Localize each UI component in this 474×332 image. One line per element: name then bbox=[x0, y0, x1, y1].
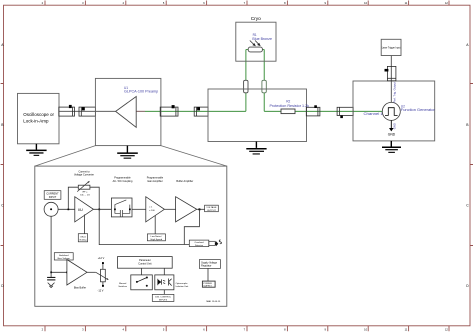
ground (function generator) bbox=[382, 141, 401, 153]
frame ticks bottom bbox=[45, 326, 449, 332]
svg-text:Nulling: Nulling bbox=[80, 239, 87, 241]
svg-text:MAK 15.06.15: MAK 15.06.15 bbox=[206, 300, 221, 303]
svg-text:I/U: I/U bbox=[78, 207, 83, 212]
svg-text:Optocoupler: Optocoupler bbox=[176, 282, 188, 285]
wire amp output (dark segment) bbox=[136, 110, 145, 112]
svg-text:7: 7 bbox=[244, 1, 246, 5]
wire bias from input bbox=[51, 216, 67, 272]
magnifier line left bbox=[35, 146, 96, 167]
svg-text:R1: R1 bbox=[253, 33, 257, 37]
frame ticks top bbox=[45, 1, 449, 6]
svg-text:x 100: x 100 bbox=[149, 210, 155, 212]
connector J4 (trigger) bbox=[387, 66, 396, 80]
buzzer connector bbox=[209, 241, 216, 245]
svg-text:-12 V: -12 V bbox=[98, 289, 104, 292]
wire R1 stubs bbox=[246, 50, 264, 53]
wire coupling to PGA bbox=[132, 208, 146, 210]
svg-text:9: 9 bbox=[324, 1, 326, 5]
cryo box bbox=[236, 22, 276, 61]
bias buffer triangle bbox=[67, 260, 87, 286]
PGA triangle bbox=[146, 197, 165, 222]
svg-text:Regulator: Regulator bbox=[201, 265, 212, 268]
svg-text:7: 7 bbox=[244, 327, 246, 331]
wire I/U to coupling bbox=[93, 208, 111, 210]
svg-text:11: 11 bbox=[405, 1, 408, 5]
switch in coupling bbox=[115, 200, 130, 209]
light arrows at R1 bbox=[250, 41, 260, 46]
wire green right cryo drop bbox=[263, 52, 265, 111]
svg-text:Channel 1: Channel 1 bbox=[364, 112, 384, 116]
svg-text:Oscilloscope or: Oscilloscope or bbox=[23, 112, 54, 117]
oscilloscope box bbox=[18, 93, 60, 143]
svg-text:INPUT: INPUT bbox=[49, 196, 57, 199]
svg-text:Offset: Offset bbox=[80, 235, 86, 238]
svg-text:INPUTS: INPUTS bbox=[159, 300, 168, 302]
ground (preamp) bbox=[117, 146, 138, 159]
dig control inputs box bbox=[152, 294, 174, 301]
svg-text:Cryo: Cryo bbox=[251, 16, 261, 22]
power supply box bbox=[202, 281, 215, 287]
offset nulling box bbox=[78, 234, 87, 242]
svg-text:B: B bbox=[466, 123, 469, 127]
svg-text:Lock-in-Amp: Lock-in-Amp bbox=[23, 118, 49, 123]
switch box bbox=[131, 275, 153, 290]
svg-text:4: 4 bbox=[122, 327, 124, 331]
svg-text:Detector: Detector bbox=[195, 244, 204, 247]
feedback loop wires bbox=[68, 187, 99, 209]
svg-text:DIG. CONTROL: DIG. CONTROL bbox=[155, 297, 172, 299]
svg-text:High Speed: High Speed bbox=[151, 239, 163, 241]
capacitor in coupling bbox=[115, 209, 130, 216]
svg-text:SUPPLY: SUPPLY bbox=[203, 285, 212, 287]
connector J1a bbox=[59, 107, 75, 116]
wire bias buffer to pot bbox=[87, 271, 96, 273]
wire oscilloscope to preamp bbox=[59, 110, 95, 112]
supply voltage regulator box bbox=[199, 260, 220, 269]
optocoupler internals bbox=[158, 279, 172, 286]
svg-text:OUTPUT: OUTPUT bbox=[207, 210, 217, 212]
wire regulator to power supply bbox=[207, 268, 209, 281]
svg-text:6: 6 bbox=[203, 327, 205, 331]
feedthrough right bbox=[262, 80, 266, 93]
R2 shield box bbox=[208, 89, 307, 142]
svg-text:Bias Buffer: Bias Buffer bbox=[74, 287, 86, 290]
wire PGA to buffer bbox=[164, 208, 175, 210]
laser trigger box bbox=[381, 39, 401, 55]
wire green left cryo drop bbox=[245, 52, 247, 111]
node dot bbox=[68, 209, 70, 211]
connector J2b bbox=[194, 107, 208, 116]
buffer triangle bbox=[176, 197, 197, 222]
svg-text:12: 12 bbox=[445, 1, 448, 5]
connector J3a bbox=[306, 107, 320, 116]
svg-text:Function Generator: Function Generator bbox=[401, 108, 436, 112]
node dot output bbox=[199, 208, 201, 210]
svg-text:5: 5 bbox=[163, 1, 165, 5]
svg-text:Gain Amplifier: Gain Amplifier bbox=[147, 180, 163, 183]
svg-text:5: 5 bbox=[163, 327, 165, 331]
svg-text:Buffer Amplifier: Buffer Amplifier bbox=[176, 180, 193, 183]
wire offset nulling bbox=[83, 215, 85, 234]
chevron ground bbox=[48, 283, 55, 288]
op-amp triangle U1 bbox=[116, 97, 137, 128]
svg-text:RF =: RF = bbox=[83, 191, 89, 193]
svg-text:Parameter: Parameter bbox=[139, 259, 151, 262]
feedthrough left bbox=[244, 80, 248, 93]
inset box bbox=[35, 166, 227, 306]
ground (oscilloscope) bbox=[26, 144, 46, 156]
svg-text:Control Unit: Control Unit bbox=[138, 262, 152, 265]
potentiometer bbox=[101, 269, 106, 282]
svg-text:Bias Voltage: Bias Voltage bbox=[58, 257, 71, 260]
svg-text:2: 2 bbox=[42, 1, 44, 5]
svg-text:Voltage Converter: Voltage Converter bbox=[74, 174, 94, 177]
wire output to overload bbox=[184, 209, 199, 244]
svg-text:8: 8 bbox=[284, 1, 286, 5]
svg-text:Overload: Overload bbox=[195, 241, 205, 244]
wire overload rail bbox=[99, 209, 189, 244]
svg-text:2: 2 bbox=[42, 327, 44, 331]
svg-text:Isolation Unit: Isolation Unit bbox=[176, 285, 189, 288]
svg-text:A: A bbox=[466, 43, 469, 47]
svg-text:9: 9 bbox=[324, 327, 326, 331]
resistor R2 bbox=[281, 109, 295, 114]
op-amp I/U bbox=[75, 197, 94, 222]
wire opto to dig inputs bbox=[163, 290, 165, 295]
svg-text:3: 3 bbox=[82, 327, 84, 331]
svg-text:Protection Resistor 1.2k: Protection Resistor 1.2k bbox=[270, 104, 310, 108]
svg-text:Laser Trigger Input: Laser Trigger Input bbox=[382, 46, 401, 50]
wire buffer to output bbox=[197, 208, 205, 210]
svg-text:Ref. Trig. Output: Ref. Trig. Output bbox=[392, 82, 396, 103]
svg-text:AC / DC Coupling: AC / DC Coupling bbox=[113, 180, 133, 183]
wire PCU to opto bbox=[163, 268, 165, 275]
svg-text:4: 4 bbox=[122, 1, 124, 5]
gnd arrow U2 bbox=[390, 120, 392, 128]
wire PGA mode bbox=[154, 216, 156, 234]
parameter control unit box bbox=[118, 257, 173, 269]
svg-text:10: 10 bbox=[364, 327, 367, 331]
overload detector box bbox=[189, 240, 209, 247]
preamp box U1 bbox=[95, 78, 160, 145]
voltage output box bbox=[205, 205, 219, 212]
wire green R2 resistor to function generator bbox=[295, 110, 382, 112]
pot supply terminals bbox=[102, 264, 104, 270]
svg-text:8: 8 bbox=[284, 327, 286, 331]
coupling box bbox=[111, 198, 132, 217]
svg-text:Low Noise /: Low Noise / bbox=[151, 236, 163, 238]
magnifier line right bbox=[161, 146, 227, 167]
wire green node to R2 resistor bbox=[264, 110, 281, 112]
svg-text:12: 12 bbox=[445, 327, 448, 331]
connector J3b bbox=[337, 107, 353, 115]
ground (R2 box) bbox=[246, 142, 266, 155]
svg-text:3: 3 bbox=[82, 1, 84, 5]
feedback resistor RF bbox=[78, 185, 90, 189]
frame row letters bbox=[1, 43, 469, 288]
low noise box bbox=[147, 234, 165, 241]
svg-text:10: 10 bbox=[364, 1, 367, 5]
capacitor bias bbox=[50, 272, 52, 277]
frame ticks right bbox=[470, 84, 473, 246]
function generator box bbox=[353, 81, 435, 141]
pulse waveform bbox=[385, 108, 398, 116]
wire preamp input (left edge to amp apex) bbox=[95, 110, 115, 112]
connector J1b bbox=[79, 107, 95, 116]
wire PCU to switches bbox=[141, 268, 143, 275]
connector J2a bbox=[160, 107, 178, 116]
wire green preamp to R2 box bbox=[145, 110, 246, 112]
svg-text:C: C bbox=[466, 204, 469, 208]
source U2 circle bbox=[382, 102, 400, 120]
node dot bbox=[98, 209, 100, 211]
current input label box bbox=[44, 191, 61, 200]
svg-text:10k ... 1G: 10k ... 1G bbox=[80, 194, 90, 196]
svg-text:Stabilized: Stabilized bbox=[59, 254, 69, 257]
wire trigger up bbox=[390, 56, 392, 103]
svg-text:+12 V: +12 V bbox=[98, 257, 105, 260]
bias voltage label box bbox=[54, 253, 73, 260]
svg-text:VOLTAGE: VOLTAGE bbox=[206, 206, 217, 209]
svg-text:GLPCA-100 Preamp: GLPCA-100 Preamp bbox=[124, 90, 158, 94]
svg-text:11: 11 bbox=[405, 327, 408, 331]
resistor R1 (sample) bbox=[248, 47, 262, 52]
svg-text:6: 6 bbox=[203, 1, 205, 5]
RF arrow bbox=[77, 182, 88, 192]
svg-text:D: D bbox=[466, 284, 469, 288]
svg-text:Manual: Manual bbox=[119, 283, 127, 285]
wire input to I/U bbox=[58, 208, 75, 210]
optocoupler box bbox=[155, 275, 174, 290]
buzzer speaker bbox=[215, 241, 218, 246]
input connector circle bbox=[44, 202, 58, 216]
frame ticks left bbox=[1, 84, 4, 246]
svg-text:GND: GND bbox=[388, 132, 396, 136]
svg-text:Switches: Switches bbox=[118, 285, 128, 288]
